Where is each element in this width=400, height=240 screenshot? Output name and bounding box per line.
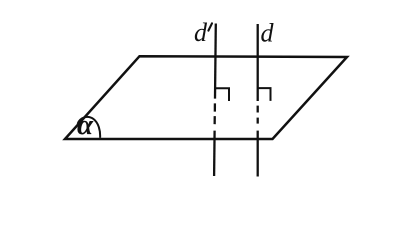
line d' upper solid segment [214,24,217,99]
label d prime tick [208,23,212,30]
svg-text:d: d [261,19,275,48]
right-angle marker on d [258,88,271,101]
right-angle marker on d' [215,88,229,101]
plane alpha parallelogram outline [65,56,347,139]
line d' lower solid segment [213,131,216,176]
svg-text:α: α [77,109,94,141]
line d hidden dashed segment [257,106,259,124]
line d upper solid segment [257,24,259,101]
line d lower solid segment [257,131,259,177]
svg-text:d: d [194,18,208,47]
line d' hidden dashed segment [213,103,216,124]
angle alpha arc [78,117,101,138]
